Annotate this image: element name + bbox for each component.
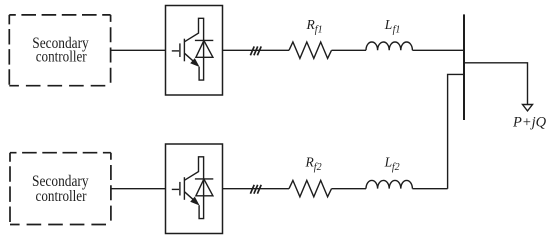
svg-text:f1: f1 (393, 25, 401, 36)
svg-text:L: L (384, 154, 393, 169)
svg-text:controller: controller (36, 188, 88, 205)
svg-text:f2: f2 (314, 162, 322, 173)
svg-text:controller: controller (36, 49, 88, 66)
svg-text:f1: f1 (315, 25, 323, 36)
svg-text:f2: f2 (392, 162, 400, 173)
svg-text:P+jQ: P+jQ (512, 114, 547, 130)
svg-text:L: L (384, 17, 393, 32)
